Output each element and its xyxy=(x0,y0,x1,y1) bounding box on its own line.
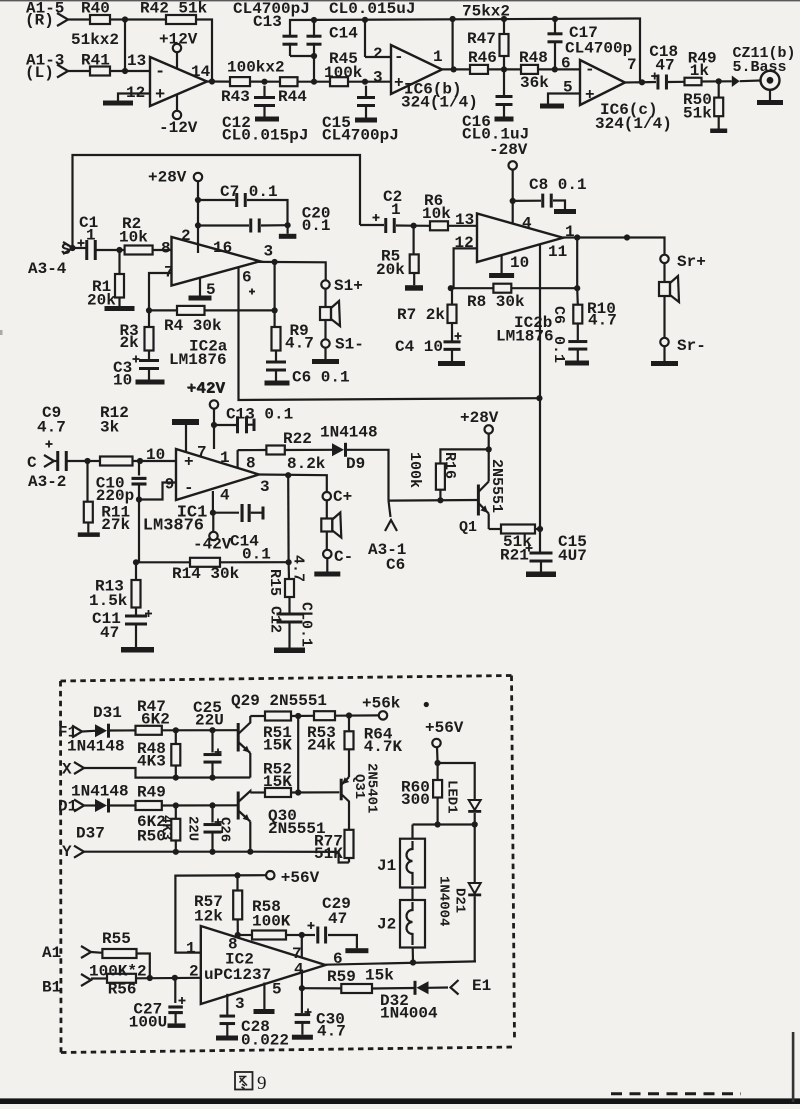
svg-text:4K3: 4K3 xyxy=(158,815,174,840)
svg-text:Y: Y xyxy=(62,843,72,861)
svg-text:3: 3 xyxy=(235,995,245,1013)
svg-text:+56V: +56V xyxy=(425,719,464,737)
svg-text:Sr+: Sr+ xyxy=(677,253,706,271)
svg-text:D37: D37 xyxy=(76,825,105,843)
svg-text:1N4004: 1N4004 xyxy=(436,876,452,926)
svg-text:4.7: 4.7 xyxy=(588,312,617,330)
svg-text:1N4004: 1N4004 xyxy=(380,1005,438,1023)
svg-text:-: - xyxy=(394,48,404,66)
svg-text:C14: C14 xyxy=(329,25,358,43)
svg-text:R46: R46 xyxy=(468,49,497,67)
svg-text:S1+: S1+ xyxy=(334,277,363,295)
svg-text:220p: 220p xyxy=(96,487,134,505)
svg-text:R22: R22 xyxy=(283,430,312,448)
svg-text:-12V: -12V xyxy=(159,119,198,137)
svg-text:R55: R55 xyxy=(102,930,131,948)
svg-text:47: 47 xyxy=(655,56,674,74)
svg-text:E1: E1 xyxy=(472,977,491,995)
svg-text:0.1: 0.1 xyxy=(242,546,271,564)
svg-text:R4 30k: R4 30k xyxy=(164,317,222,335)
svg-text:10k: 10k xyxy=(119,229,148,247)
svg-text:(L): (L) xyxy=(25,64,54,82)
svg-text:C-: C- xyxy=(334,548,353,566)
svg-text:0.1: 0.1 xyxy=(550,336,567,363)
svg-text:R49: R49 xyxy=(137,784,166,802)
svg-text:51K: 51K xyxy=(314,845,343,863)
svg-text:51k: 51k xyxy=(683,105,712,123)
svg-text:R16: R16 xyxy=(441,452,458,479)
svg-text:2: 2 xyxy=(181,227,191,245)
svg-text:A3-2: A3-2 xyxy=(28,473,66,491)
svg-text:300: 300 xyxy=(401,791,430,809)
svg-text:12k: 12k xyxy=(194,908,223,926)
svg-text:CL4700p: CL4700p xyxy=(565,40,632,58)
svg-text:5.Bass: 5.Bass xyxy=(733,59,787,76)
svg-text:4U7: 4U7 xyxy=(558,547,587,565)
svg-text:4: 4 xyxy=(522,215,532,233)
svg-text:R43: R43 xyxy=(221,88,250,106)
svg-text:1N4148: 1N4148 xyxy=(67,738,125,756)
svg-text:LM1876: LM1876 xyxy=(496,328,554,346)
svg-text:-: - xyxy=(184,479,194,497)
svg-text:1: 1 xyxy=(433,48,443,66)
svg-text:4K3: 4K3 xyxy=(137,753,166,771)
svg-text:+: + xyxy=(184,453,194,471)
svg-text:C+: C+ xyxy=(333,488,352,506)
svg-text:22U: 22U xyxy=(195,712,224,730)
svg-text:24k: 24k xyxy=(307,737,336,755)
svg-text:R14 30k: R14 30k xyxy=(172,565,240,583)
svg-text:Q1: Q1 xyxy=(459,519,477,536)
svg-text:J2: J2 xyxy=(377,916,396,934)
svg-text:3: 3 xyxy=(264,243,274,261)
svg-text:C6: C6 xyxy=(386,556,405,574)
svg-text:324(1/4): 324(1/4) xyxy=(401,94,478,112)
svg-text:1.5k: 1.5k xyxy=(89,592,128,610)
svg-text:3k: 3k xyxy=(100,419,120,437)
svg-text:+: + xyxy=(394,74,404,92)
svg-text:(R): (R) xyxy=(25,12,54,30)
svg-text:8: 8 xyxy=(246,455,256,473)
svg-text:-: - xyxy=(155,63,165,82)
svg-text:4: 4 xyxy=(220,487,230,505)
svg-text:1k: 1k xyxy=(690,62,710,80)
svg-text:9: 9 xyxy=(165,476,175,494)
svg-text:0.1: 0.1 xyxy=(302,217,331,235)
svg-text:S1-: S1- xyxy=(335,336,364,354)
svg-text:7: 7 xyxy=(197,444,207,462)
svg-text:100k: 100k xyxy=(324,64,363,82)
svg-text:3: 3 xyxy=(373,69,383,87)
svg-text:47: 47 xyxy=(100,624,119,642)
svg-text:1: 1 xyxy=(86,227,96,245)
svg-text:R41: R41 xyxy=(81,52,110,70)
svg-text:R48: R48 xyxy=(519,49,548,67)
svg-text:R44: R44 xyxy=(278,88,307,106)
svg-text:LED1: LED1 xyxy=(444,780,460,814)
svg-text:4.7K: 4.7K xyxy=(364,738,403,756)
svg-text:8: 8 xyxy=(161,240,171,258)
svg-text:4.7: 4.7 xyxy=(317,1023,346,1041)
svg-text:X: X xyxy=(62,761,72,779)
svg-text:1: 1 xyxy=(391,201,401,219)
svg-text:10: 10 xyxy=(113,372,132,390)
svg-text:4.7: 4.7 xyxy=(285,335,314,353)
svg-text:CL0.1: CL0.1 xyxy=(298,602,315,647)
svg-text:R59: R59 xyxy=(327,968,356,986)
svg-text:R47: R47 xyxy=(467,30,496,48)
svg-text:100K: 100K xyxy=(252,913,291,931)
svg-text:R7 2k: R7 2k xyxy=(397,306,445,324)
svg-text:C6 0.1: C6 0.1 xyxy=(292,369,350,387)
svg-text:C12: C12 xyxy=(267,606,284,633)
svg-text:A1: A1 xyxy=(42,944,61,962)
svg-text:Sr-: Sr- xyxy=(677,337,706,355)
svg-text:6K2: 6K2 xyxy=(141,711,170,729)
svg-text:+28V: +28V xyxy=(460,409,499,427)
svg-text:LM1876: LM1876 xyxy=(169,351,227,369)
svg-text:C: C xyxy=(27,454,37,472)
svg-text:20k: 20k xyxy=(87,292,116,310)
svg-text:D9: D9 xyxy=(346,455,365,473)
svg-text:100kx2: 100kx2 xyxy=(227,59,285,77)
svg-text:R56: R56 xyxy=(108,981,137,999)
svg-text:+56k: +56k xyxy=(362,695,401,713)
svg-text:C26: C26 xyxy=(217,817,233,842)
svg-text:13: 13 xyxy=(127,52,146,70)
svg-text:A3-4: A3-4 xyxy=(28,260,67,278)
svg-text:75kx2: 75kx2 xyxy=(462,3,510,21)
svg-text:CL0.015pJ: CL0.015pJ xyxy=(222,127,308,145)
svg-text:LM3876: LM3876 xyxy=(143,517,204,536)
svg-text:C4 10: C4 10 xyxy=(395,338,443,356)
svg-text:8.2k: 8.2k xyxy=(287,455,326,473)
svg-text:J1: J1 xyxy=(377,857,396,875)
svg-text:C13 0.1: C13 0.1 xyxy=(226,406,293,424)
svg-text:R40: R40 xyxy=(81,0,110,18)
svg-text:2: 2 xyxy=(373,45,383,63)
svg-text:3: 3 xyxy=(260,478,270,496)
svg-text:R21: R21 xyxy=(500,547,529,565)
svg-text:1N4148: 1N4148 xyxy=(71,783,129,801)
svg-text:C13: C13 xyxy=(253,13,282,31)
svg-text:R8 30k: R8 30k xyxy=(467,293,525,311)
svg-text:4.7: 4.7 xyxy=(37,419,66,437)
svg-text:+42V: +42V xyxy=(187,380,226,398)
svg-text:CL0.015uJ: CL0.015uJ xyxy=(329,0,415,18)
svg-text:100k: 100k xyxy=(406,452,423,488)
svg-text:CL4700pJ: CL4700pJ xyxy=(322,127,399,145)
svg-text:27k: 27k xyxy=(101,516,130,534)
svg-text:5: 5 xyxy=(272,981,282,999)
svg-text:C8 0.1: C8 0.1 xyxy=(529,176,587,194)
svg-text:1: 1 xyxy=(186,940,196,958)
svg-text:324(1/4): 324(1/4) xyxy=(595,115,672,133)
svg-text:+12V: +12V xyxy=(159,31,198,49)
svg-text:0.022: 0.022 xyxy=(241,1032,289,1050)
svg-text:-28V: -28V xyxy=(489,141,528,159)
svg-text:1: 1 xyxy=(220,449,230,467)
svg-text:2N5551: 2N5551 xyxy=(488,459,505,513)
svg-text:+28V: +28V xyxy=(148,169,187,187)
svg-text:9: 9 xyxy=(257,1073,267,1094)
svg-text:36k: 36k xyxy=(520,74,549,92)
svg-text:-42V: -42V xyxy=(193,536,232,554)
svg-text:7: 7 xyxy=(627,56,637,74)
svg-text:13: 13 xyxy=(455,211,474,229)
svg-text:+: + xyxy=(155,86,165,105)
svg-text:51kx2: 51kx2 xyxy=(71,31,119,49)
svg-text:B1: B1 xyxy=(42,979,61,997)
svg-text:C7 0.1: C7 0.1 xyxy=(220,183,278,201)
svg-text:22U: 22U xyxy=(185,816,201,841)
svg-text:4.7: 4.7 xyxy=(290,555,307,582)
svg-text:2k: 2k xyxy=(120,334,140,352)
svg-text:R42 51k: R42 51k xyxy=(140,0,208,18)
svg-text:47: 47 xyxy=(328,910,347,928)
svg-text:16: 16 xyxy=(213,239,232,257)
svg-text:14: 14 xyxy=(191,63,211,81)
svg-text:R15: R15 xyxy=(266,569,283,596)
svg-text:15k: 15k xyxy=(365,967,394,985)
svg-text:C6: C6 xyxy=(550,306,567,324)
svg-text:Q29 2N5551: Q29 2N5551 xyxy=(231,692,327,710)
svg-text:6: 6 xyxy=(242,269,252,287)
svg-text:6: 6 xyxy=(561,55,571,73)
svg-text:uPC1237: uPC1237 xyxy=(204,966,271,984)
svg-text:10: 10 xyxy=(146,446,165,464)
svg-text:100U: 100U xyxy=(129,1014,167,1032)
svg-text:15K: 15K xyxy=(263,737,292,755)
svg-text:D21: D21 xyxy=(452,888,468,913)
svg-text:20k: 20k xyxy=(376,261,405,279)
svg-text:11: 11 xyxy=(548,243,567,261)
svg-text:10: 10 xyxy=(510,254,529,272)
svg-text:Q31: Q31 xyxy=(351,774,367,799)
svg-text:1N4148: 1N4148 xyxy=(320,424,378,442)
svg-text:+56V: +56V xyxy=(281,869,320,887)
svg-text:D31: D31 xyxy=(93,704,122,722)
